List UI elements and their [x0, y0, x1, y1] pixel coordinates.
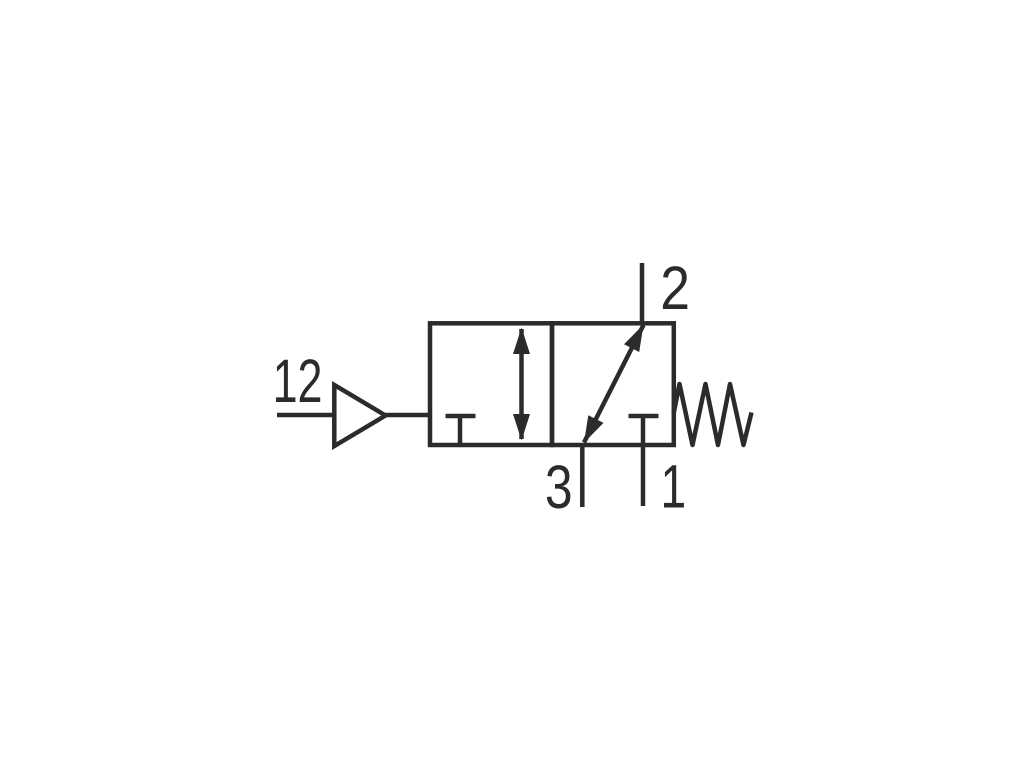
- double-headed vertical arrow in left box: [519, 329, 524, 439]
- port label 12: [273, 347, 323, 416]
- port label 2: [660, 254, 690, 322]
- svg-text:3: 3: [545, 452, 573, 521]
- wire: port 1 line (through bottom edge of box b): [641, 416, 646, 506]
- wire: pilot line from label 12 to pilot triangle: [277, 413, 334, 418]
- svg-text:2: 2: [660, 254, 690, 322]
- port label 1: [661, 452, 687, 521]
- blocked-port 1 symbol (T) in right box: [629, 414, 659, 419]
- wire: port 2 line: [640, 263, 645, 323]
- blocked-port symbol (T) in left box: [446, 416, 476, 445]
- wire: port 3 line: [580, 445, 585, 507]
- svg-text:1: 1: [661, 452, 687, 521]
- valve body: position box b (right): [552, 323, 674, 445]
- valve body: position box a (left): [430, 323, 552, 445]
- svg-text:12: 12: [273, 347, 323, 416]
- return spring: [674, 384, 752, 445]
- pilot actuator triangle (pneumatic pilot, port 12): [334, 385, 385, 446]
- port label 3: [545, 452, 573, 521]
- wire: pilot triangle apex to valve body: [386, 413, 431, 418]
- flow-path double arrow (port 3 to port 2) in right box: [584, 325, 644, 443]
